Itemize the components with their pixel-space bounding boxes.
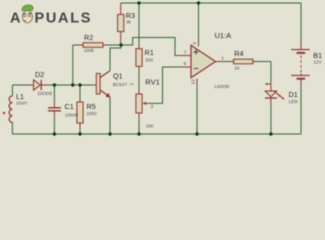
svg-text:RV1: RV1 — [145, 78, 159, 87]
svg-text:200: 200 — [145, 57, 153, 62]
svg-text:A: A — [10, 11, 22, 27]
svg-text:12: 12 — [191, 79, 196, 85]
svg-text:LED: LED — [289, 99, 299, 104]
svg-text:R5: R5 — [87, 102, 96, 111]
svg-text:7: 7 — [184, 50, 187, 55]
svg-text:DIODE: DIODE — [38, 91, 53, 96]
svg-text:6: 6 — [184, 61, 187, 66]
svg-text:PUALS: PUALS — [35, 11, 93, 27]
svg-text:LM339: LM339 — [215, 84, 230, 90]
svg-text:3k: 3k — [126, 20, 132, 25]
svg-text:Q1: Q1 — [113, 72, 123, 81]
svg-text:1: 1 — [129, 83, 134, 86]
svg-text:D1: D1 — [289, 90, 298, 99]
svg-text:10: 10 — [234, 66, 240, 71]
svg-text:BC547: BC547 — [113, 82, 128, 87]
svg-text:10uH: 10uH — [16, 101, 27, 106]
svg-text:1000: 1000 — [86, 111, 97, 116]
svg-text:2: 2 — [151, 104, 154, 109]
svg-text:R1: R1 — [145, 48, 154, 57]
svg-text:1: 1 — [221, 56, 224, 61]
svg-text:L1: L1 — [16, 92, 24, 101]
svg-text:R2: R2 — [84, 33, 93, 42]
svg-text:3: 3 — [192, 42, 197, 45]
svg-text:100: 100 — [146, 124, 154, 129]
svg-text:R3: R3 — [126, 11, 135, 20]
svg-text:100nF: 100nF — [65, 113, 78, 118]
svg-text:R4: R4 — [234, 49, 243, 58]
svg-text:U1:A: U1:A — [215, 31, 232, 40]
svg-text:C1: C1 — [65, 102, 74, 111]
svg-text:100k: 100k — [84, 48, 95, 53]
svg-text:D2: D2 — [35, 70, 44, 79]
svg-text:12V: 12V — [313, 60, 322, 65]
